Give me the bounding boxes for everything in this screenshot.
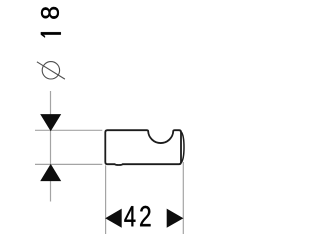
dimension label 18: digit 8 (rotated) [41, 7, 59, 19]
arrowhead right [167, 209, 184, 228]
dimension label 42: digit 2 [140, 206, 150, 226]
hook body outline [105, 130, 181, 165]
extension line top [35, 129, 102, 131]
dimension label 42: digit 4 [124, 206, 135, 226]
extension line bottom [35, 163, 102, 165]
hook tip end-cap arc [181, 132, 184, 163]
extension line right (42) [182, 162, 184, 234]
arrowhead left [105, 209, 122, 228]
vertical dimension line [50, 91, 52, 202]
arrowhead up [40, 164, 61, 181]
arrowhead down [40, 114, 61, 131]
dimension label 18: digit 1 (rotated) [41, 32, 61, 37]
extension line left (42) [105, 165, 107, 234]
diameter symbol [37, 62, 65, 79]
